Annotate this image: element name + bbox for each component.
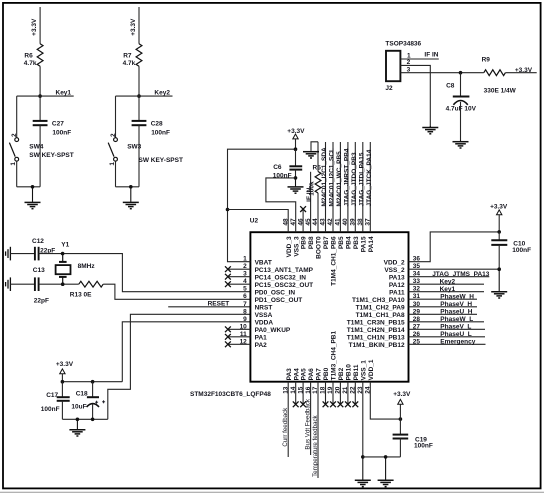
- ground C17 C18: [69, 419, 85, 436]
- svg-text:VSSA: VSSA: [255, 312, 273, 319]
- svg-text:PA6: PA6: [308, 368, 315, 381]
- svg-text:SW KEY-SPST: SW KEY-SPST: [29, 152, 73, 159]
- ground Key2: [123, 187, 139, 209]
- IC U2 STM32F103CBT6_LQFP48 body: [250, 232, 408, 382]
- svg-text:PA4: PA4: [293, 368, 300, 381]
- svg-text:PB0: PB0: [323, 367, 330, 380]
- svg-text:100k: 100k: [308, 181, 315, 196]
- svg-text:Curr feedback: Curr feedback: [282, 407, 289, 447]
- wire pin20 no-connect: [339, 382, 341, 405]
- crystal Y1: [62, 254, 64, 262]
- wire VSS_1 pin23 to ground: [362, 382, 364, 457]
- svg-text:JTAG_JTMS_PA13: JTAG_JTMS_PA13: [432, 271, 490, 278]
- resistor R7: [136, 44, 142, 66]
- svg-text:9: 9: [243, 316, 247, 323]
- wire pin34 net JTAG_JTMS_PA13: [409, 276, 490, 278]
- svg-text:PhaseV_L: PhaseV_L: [440, 323, 471, 330]
- svg-text:3: 3: [407, 67, 411, 74]
- wire RESET net to pin7 NRST: [168, 306, 250, 308]
- svg-text:C12: C12: [32, 238, 44, 245]
- svg-text:PhaseW_L: PhaseW_L: [440, 316, 473, 323]
- svg-text:T1M1_BKIN_PB12: T1M1_BKIN_PB12: [349, 342, 405, 349]
- svg-text:T1M4_CH1_PB6: T1M4_CH1_PB6: [331, 236, 338, 286]
- wire R13 / OSC_OUT to pin6: [103, 284, 250, 299]
- svg-text:Key2: Key2: [440, 278, 456, 285]
- svg-text:PB9: PB9: [301, 236, 308, 249]
- svg-text:VBAT: VBAT: [255, 259, 272, 266]
- svg-text:2: 2: [11, 133, 18, 137]
- svg-text:C18: C18: [76, 390, 88, 397]
- svg-text:PA13: PA13: [389, 274, 405, 281]
- wire pin25 net Emergency: [409, 343, 486, 345]
- svg-text:PB3: PB3: [353, 236, 360, 249]
- wire pin30 net PhaseV_H: [409, 306, 478, 308]
- pin 3 J2 wire to R9 and C8: [400, 72, 483, 74]
- node Y1 top: [61, 252, 65, 256]
- wire pin28 net PhaseW_L: [409, 321, 485, 323]
- capacitor C19: [393, 435, 409, 439]
- wire gnd to C13: [10, 283, 34, 285]
- svg-text:T1M1_CH1_PA8: T1M1_CH1_PA8: [356, 312, 405, 319]
- wire pin2 no-connect: [228, 268, 251, 270]
- ground Key1: [25, 187, 41, 209]
- svg-text:5: 5: [243, 286, 247, 293]
- svg-text:STM32F103CBT6_LQFP48: STM32F103CBT6_LQFP48: [190, 391, 271, 398]
- svg-text:PB5: PB5: [338, 236, 345, 249]
- svg-text:PB8: PB8: [308, 236, 315, 249]
- node Key1: [38, 94, 42, 98]
- svg-text:R13 0E: R13 0E: [70, 291, 92, 298]
- svg-text:PhaseV_H: PhaseV_H: [440, 301, 472, 308]
- svg-text:PhaseU_L: PhaseU_L: [440, 331, 471, 338]
- svg-text:JTAG_JNRST_PB4: JTAG_JNRST_PB4: [343, 148, 350, 206]
- wire R5 hook to ground: [311, 142, 318, 151]
- power +3.3V net Key2 pull-up: [138, 7, 140, 44]
- svg-text:M24C01_I2C1_SDA: M24C01_I2C1_SDA: [321, 147, 328, 207]
- wire pin40 net JTAG_JNRST_PB4: [347, 142, 349, 232]
- wire R7 to Key2 node: [138, 66, 140, 121]
- wire SW4 bottom rail: [17, 186, 40, 188]
- svg-text:Temperature feedback: Temperature feedback: [312, 414, 319, 476]
- wire C28 to bottom node: [138, 125, 140, 187]
- svg-text:PA15: PA15: [360, 236, 367, 252]
- wire pin31 net PhaseW_H: [409, 298, 478, 300]
- wire pin43 net M24C01_I2C1_SDA: [325, 142, 327, 232]
- ground C12 sideways: [3, 247, 10, 261]
- wire C13 to R13: [39, 283, 79, 285]
- svg-text:8MHz: 8MHz: [78, 263, 96, 270]
- svg-text:100nF: 100nF: [414, 442, 433, 449]
- capacitor C13: [35, 277, 39, 291]
- wire C19 ground rail: [363, 456, 401, 458]
- svg-text:330E 1/4W: 330E 1/4W: [484, 87, 517, 94]
- svg-text:PB2: PB2: [338, 367, 345, 380]
- svg-text:8: 8: [243, 308, 247, 315]
- wire VSSA pin8: [108, 314, 251, 419]
- wire VDD_1 pin24: [370, 382, 400, 419]
- svg-text:C8: C8: [446, 83, 455, 90]
- svg-text:VDD_1: VDD_1: [368, 359, 375, 380]
- svg-text:C28: C28: [151, 120, 163, 127]
- resistor R5 BOOT0 pulldown: [317, 193, 319, 232]
- wire pin42 net M24C01_I2C1_SCL: [332, 142, 334, 232]
- svg-text:JTAG_JTCK_PA14: JTAG_JTCK_PA14: [366, 149, 373, 206]
- svg-text:C27: C27: [52, 120, 64, 127]
- wire pin19 no-connect: [332, 382, 334, 405]
- svg-text:T1M3_CH4_PB1: T1M3_CH4_PB1: [331, 331, 338, 381]
- svg-text:C6: C6: [273, 164, 282, 171]
- wire pin38 net JTAG_JTDI_PA15: [362, 142, 364, 232]
- svg-text:Key1: Key1: [56, 90, 72, 97]
- svg-text:SW3: SW3: [127, 144, 141, 151]
- wire pin10 no-connect: [228, 328, 251, 330]
- svg-text:VSS_1: VSS_1: [360, 360, 367, 381]
- svg-text:R9: R9: [482, 57, 491, 64]
- svg-text:+3.3V: +3.3V: [130, 18, 137, 36]
- capacitor C17: [61, 382, 63, 398]
- capacitor C10: [498, 232, 500, 240]
- svg-text:PC13_ANT1_TAMP: PC13_ANT1_TAMP: [255, 267, 314, 274]
- wire pin12 no-connect: [228, 343, 251, 345]
- svg-text:PC14_OSC32_IN: PC14_OSC32_IN: [255, 274, 307, 281]
- wire pin45 IF IN: [310, 172, 312, 232]
- node VBAT branch: [226, 208, 230, 212]
- ground R5: [303, 151, 319, 158]
- svg-text:JTAG_JTDI_PA15: JTAG_JTDI_PA15: [358, 152, 365, 206]
- resistor R6: [37, 44, 43, 66]
- wire pin39 net JTAG_JTDO_PB3: [354, 142, 356, 232]
- switch SW4: [16, 96, 18, 138]
- svg-text:100nF: 100nF: [512, 247, 531, 254]
- svg-text:100nF: 100nF: [41, 406, 60, 413]
- svg-text:4.7k: 4.7k: [123, 60, 136, 67]
- wire C27 to bottom node: [39, 125, 41, 187]
- svg-text:IF IN: IF IN: [424, 51, 438, 58]
- wire VSS_2 pin35: [409, 268, 500, 270]
- svg-text:J2: J2: [385, 85, 393, 92]
- capacitor C18 polarized: [92, 382, 94, 398]
- ground J2 pin2: [422, 126, 438, 134]
- svg-text:PD0_OSC_IN: PD0_OSC_IN: [255, 289, 296, 296]
- wire pin3 no-connect: [228, 276, 251, 278]
- wire pin15 no-connect: [302, 382, 304, 405]
- svg-text:+3.3V: +3.3V: [56, 361, 74, 368]
- power +3.3V net Key1 pull-up: [39, 7, 41, 44]
- svg-text:T1M1_CH2N_PB14: T1M1_CH2N_PB14: [347, 327, 405, 334]
- capacitor C6: [295, 149, 297, 166]
- svg-text:+3.3V: +3.3V: [393, 391, 411, 398]
- svg-text:PA1: PA1: [255, 334, 268, 341]
- svg-text:U2: U2: [250, 217, 259, 224]
- ground C19: [378, 457, 394, 487]
- svg-text:VDD_3: VDD_3: [286, 236, 293, 257]
- svg-text:PA11: PA11: [389, 289, 405, 296]
- node C8/R9 junction: [459, 71, 463, 75]
- svg-text:TSOP34836: TSOP34836: [385, 41, 421, 48]
- svg-text:4.7k: 4.7k: [24, 60, 37, 67]
- svg-text:PhaseW_H: PhaseW_H: [440, 293, 474, 300]
- svg-text:Bus Vdt Feedback: Bus Vdt Feedback: [305, 398, 312, 449]
- svg-text:100nF: 100nF: [52, 129, 71, 136]
- pin 2 J2 wire to ground: [400, 65, 430, 127]
- switch SW3: [115, 96, 117, 138]
- wire analog ground rail: [62, 418, 107, 420]
- pin 1 J2 wire IF IN: [400, 58, 438, 60]
- svg-text:PB11: PB11: [353, 364, 360, 380]
- svg-text:PhaseU_H: PhaseU_H: [440, 308, 472, 315]
- ground VSS_1: [355, 457, 371, 487]
- svg-text:T1M1_CH3_PA10: T1M1_CH3_PA10: [352, 297, 405, 304]
- svg-text:PA3: PA3: [286, 368, 293, 381]
- svg-text:100nF: 100nF: [151, 129, 170, 136]
- ground C8: [453, 140, 469, 148]
- node C6 bottom: [294, 176, 298, 180]
- wire C8 to ground: [460, 102, 462, 141]
- wire rail to pin48: [228, 210, 289, 233]
- wire VBAT rail: [228, 149, 296, 262]
- wire pin18 no-connect: [325, 382, 327, 405]
- svg-text:T1M1_CH2_PA9: T1M1_CH2_PA9: [356, 304, 405, 311]
- wire VDDA pin9: [122, 322, 250, 382]
- capacitor C8 polarized: [460, 73, 462, 97]
- capacitor C27: [33, 121, 48, 125]
- svg-text:T1M1_CR3N_PB15: T1M1_CR3N_PB15: [347, 319, 405, 326]
- wire gnd to C12: [10, 253, 34, 255]
- svg-text:C13: C13: [33, 267, 45, 274]
- svg-text:T1M1_CH1N_PB13: T1M1_CH1N_PB13: [347, 334, 405, 341]
- svg-text:7: 7: [243, 301, 247, 308]
- svg-text:+3.3V: +3.3V: [287, 128, 305, 135]
- wire pin26 net PhaseU_L: [409, 336, 486, 338]
- svg-text:2: 2: [407, 59, 411, 66]
- wire pin46 no-connect: [302, 209, 304, 232]
- wire pin29 net PhaseU_H: [409, 313, 478, 315]
- svg-text:VDDA: VDDA: [255, 319, 274, 326]
- svg-text:VDD_2: VDD_2: [384, 259, 405, 266]
- resistor R13: [79, 281, 103, 287]
- svg-text:PA7: PA7: [316, 368, 323, 381]
- wire pin14 no-connect: [295, 382, 297, 405]
- svg-text:4.7uF 10V: 4.7uF 10V: [446, 106, 477, 113]
- svg-text:SW4: SW4: [29, 143, 43, 150]
- svg-text:JTAG_JTDO_PB3: JTAG_JTDO_PB3: [351, 152, 358, 206]
- svg-text:PB7: PB7: [323, 236, 330, 249]
- svg-text:PC15_OSC32_OUT: PC15_OSC32_OUT: [255, 282, 314, 289]
- svg-text:PB10: PB10: [346, 364, 353, 381]
- svg-text:R5: R5: [313, 165, 322, 172]
- svg-text:M24C01_I2C1_SCL: M24C01_I2C1_SCL: [329, 148, 336, 207]
- wire R9 to +3.3V: [505, 72, 536, 74]
- svg-text:Emergency: Emergency: [440, 338, 475, 345]
- svg-text:10uF: 10uF: [71, 403, 86, 410]
- wire pin13 Curr feedback: [287, 382, 289, 457]
- wire pin33 net Key2: [409, 283, 485, 285]
- wire pin4 no-connect: [228, 283, 251, 285]
- svg-text:PB4: PB4: [346, 236, 353, 249]
- svg-text:R7: R7: [123, 52, 132, 59]
- wire C6 gnd to pin47 VSS_3: [266, 178, 296, 232]
- svg-text:Key1: Key1: [440, 286, 456, 293]
- svg-text:BOOT0: BOOT0: [316, 236, 323, 259]
- wire pin41 net M24C01_WC_PB5: [339, 142, 341, 232]
- wire pin22 no-connect: [354, 382, 356, 405]
- ground C13 sideways: [3, 277, 10, 291]
- wire R6 to Key1 node: [39, 66, 41, 121]
- svg-text:SW KEY-SPST: SW KEY-SPST: [139, 157, 183, 164]
- svg-text:+3.3V: +3.3V: [31, 18, 38, 36]
- svg-text:2: 2: [110, 133, 117, 137]
- svg-text:PA0_WKUP: PA0_WKUP: [255, 327, 291, 334]
- resistor R9: [484, 70, 506, 76]
- svg-text:PA12: PA12: [389, 282, 405, 289]
- wire pin11 no-connect: [228, 336, 251, 338]
- wire VDD_2 pin36: [409, 232, 500, 262]
- wire pin17 Temperature feedback: [317, 382, 319, 478]
- svg-text:PD1_OSC_OUT: PD1_OSC_OUT: [255, 297, 303, 304]
- svg-text:22pF: 22pF: [34, 297, 49, 304]
- svg-text:+3.3V: +3.3V: [515, 67, 533, 74]
- node Key2: [137, 94, 141, 98]
- wire pin21 no-connect: [347, 382, 349, 405]
- svg-text:VSS_3: VSS_3: [293, 236, 300, 257]
- svg-text:NRST: NRST: [255, 304, 273, 311]
- connector J2 TSOP34836: [386, 51, 400, 81]
- svg-text:C17: C17: [46, 392, 58, 399]
- wire pin32 net Key1: [409, 291, 485, 293]
- capacitor C12: [35, 247, 39, 261]
- svg-text:Y1: Y1: [61, 242, 69, 249]
- svg-text:Key2: Key2: [154, 90, 170, 97]
- wire pin37 net JTAG_JTCK_PA14: [369, 142, 371, 232]
- svg-text:R6: R6: [24, 52, 33, 59]
- ground C10: [491, 269, 507, 298]
- wire SW3 bottom rail: [116, 186, 140, 188]
- wire C12 / OSC_IN to pin5: [39, 254, 251, 292]
- svg-text:M24C01_WC_PB5: M24C01_WC_PB5: [336, 151, 343, 207]
- svg-text:6: 6: [243, 293, 247, 300]
- svg-text:RESET: RESET: [208, 301, 230, 308]
- capacitor C28: [132, 121, 147, 125]
- svg-text:VSS_2: VSS_2: [384, 267, 405, 274]
- ground C6: [288, 178, 304, 193]
- wire pin16 Bus Vdt Feedback: [310, 382, 312, 455]
- svg-text:PA2: PA2: [255, 342, 268, 349]
- svg-text:PA5: PA5: [301, 368, 308, 381]
- svg-text:PA14: PA14: [368, 236, 375, 252]
- node Y1 bottom: [61, 282, 65, 286]
- wire pin27 net PhaseV_L: [409, 328, 486, 330]
